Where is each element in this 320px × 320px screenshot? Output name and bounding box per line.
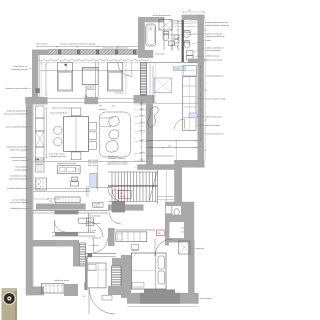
svg-text:0.90: 0.90 [99, 106, 102, 108]
central wall column lower [121, 255, 131, 298]
dark square left wall [36, 88, 40, 93]
svg-text:refuerzo dintel: refuerzo dintel [36, 42, 48, 45]
svg-text:division a sustituir por: division a sustituir por [206, 33, 223, 36]
left vertical wall desk room [85, 257, 88, 290]
svg-text:cisterna empotrada: cisterna empotrada [206, 49, 221, 52]
bed pillows [158, 256, 165, 269]
wall below kitchen gray [36, 204, 86, 210]
svg-text:placa yeso laminado hidrofugo: placa yeso laminado hidrofugo [4, 113, 27, 116]
svg-text:mueble almacenaje de obra: mueble almacenaje de obra [6, 146, 27, 149]
neighbor unit gray mass [165, 202, 194, 246]
bath2 boiler boxes [187, 51, 194, 56]
svg-text:mampara acristalada fija: mampara acristalada fija [206, 35, 225, 38]
corner washbasin corridor [87, 218, 94, 226]
svg-text:muro existente: muro existente [200, 297, 212, 300]
dimension line top facade [37, 46, 140, 48]
left wall bottom corner [26, 287, 44, 296]
svg-text:sustitucion de carpinteria ext: sustitucion de carpinteria exterior [102, 47, 129, 50]
svg-text:linea terraza nivel sup.: linea terraza nivel sup. [52, 107, 71, 110]
wardrobe column right [183, 76, 196, 130]
wall block center-top gray [134, 95, 155, 103]
stair top edge line [146, 155, 174, 157]
door arc dressing [175, 119, 185, 129]
bed [131, 253, 166, 289]
svg-text:detector incendios: detector incendios [206, 124, 220, 127]
svg-text:trasdosado laminado: trasdosado laminado [12, 68, 28, 71]
neighbor bottom white strip [169, 243, 188, 246]
svg-text:revestimiento ceramico: revestimiento ceramico [10, 175, 28, 178]
chairs right [89, 122, 97, 130]
stairs bottom wall [108, 204, 144, 210]
laundry sink unit [36, 178, 47, 190]
svg-text:mueble cocina bancada: mueble cocina bancada [57, 163, 76, 165]
shower skylight bath1 [159, 20, 172, 31]
bath1 sink [169, 41, 175, 45]
svg-text:caldera mural gas: caldera mural gas [206, 55, 220, 58]
svg-text:mesa comedor 8 pax: mesa comedor 8 pax [50, 112, 68, 115]
svg-text:distribuidor: distribuidor [92, 215, 101, 218]
dressing room counter top [183, 66, 197, 77]
vertical dimension line living left [45, 64, 47, 95]
svg-text:forrado de pilar existente con: forrado de pilar existente con [206, 21, 229, 24]
svg-text:p.06: p.06 [89, 88, 93, 90]
svg-text:instalacion fontaneria vista: instalacion fontaneria vista [7, 187, 27, 190]
stairs top wall gray [137, 164, 182, 170]
dim line corridor baths [177, 20, 179, 50]
pillar facade mid gray [84, 97, 98, 104]
red label stairs [119, 191, 131, 199]
inner face line facade [40, 62, 146, 64]
right wall outside dim ticks [205, 20, 207, 160]
corridor door arc 1 [55, 221, 67, 233]
window W2 facade right [108, 63, 123, 91]
kitchen appliance boxes [72, 177, 78, 181]
hall lines below baths [146, 62, 198, 64]
chair top [71, 108, 81, 116]
right wall band at stairs [174, 160, 182, 206]
svg-text:tabique division nueva: tabique division nueva [10, 207, 27, 210]
right dim chain [200, 66, 202, 140]
svg-text:2.10: 2.10 [168, 145, 171, 147]
bath2 toilet [184, 41, 190, 48]
svg-text:trasdosado autoportante de: trasdosado autoportante de [6, 110, 27, 113]
desk room bottom-left-2 [86, 263, 107, 288]
gray stub bottom shaft [108, 286, 121, 295]
ladder element lower [112, 266, 122, 286]
svg-text:lavabo: lavabo [206, 40, 211, 42]
neighbor closet white [169, 222, 184, 238]
svg-text:nivel 6: nivel 6 [140, 152, 145, 154]
svg-text:1.56: 1.56 [49, 201, 52, 203]
bath2 leaders [190, 33, 205, 35]
bedroom right wall [188, 240, 195, 302]
chairs left round [54, 126, 62, 134]
svg-text:registro instalaciones: registro instalaciones [206, 116, 223, 119]
svg-text:barandilla vidrio templado: barandilla vidrio templado [108, 160, 127, 163]
svg-text:mecanismos electricos: mecanismos electricos [206, 133, 224, 136]
terrace door arc facade [118, 62, 132, 76]
ladder radiator strip below bath1 [141, 63, 147, 96]
wall block left-mid gray [25, 97, 47, 105]
kitchen upper counter [57, 166, 80, 174]
wall corner top-left gray [32, 50, 49, 56]
svg-text:2.35: 2.35 [112, 106, 115, 108]
blue small box [189, 113, 197, 118]
right exterior wall upper [198, 15, 205, 168]
svg-text:nivel 5: nivel 5 [140, 140, 145, 142]
red label pb [156, 230, 164, 236]
gray block right of bench [64, 284, 78, 296]
svg-text:acabado barniz mate: acabado barniz mate [49, 155, 66, 158]
lounge rug rounded rect [99, 112, 130, 157]
svg-text:mueble: mueble [175, 69, 181, 71]
svg-text:80x210: 80x210 [120, 196, 125, 198]
washer dryer boxes [36, 158, 45, 163]
bottom-left room bench [42, 284, 65, 294]
bay square facade center [82, 67, 98, 84]
door arc kitchen pb upper [110, 213, 122, 225]
svg-text:forrado interior con: forrado interior con [13, 65, 27, 68]
door arc desk room [94, 239, 108, 253]
svg-text:bancada lavadero con: bancada lavadero con [11, 156, 28, 159]
ladder element lower-left [80, 243, 86, 266]
beam dimension line [146, 140, 198, 142]
mid wall lower [52, 231, 95, 233]
svg-text:montante instalaciones: montante instalaciones [206, 75, 224, 78]
kitchen lower counter [55, 197, 80, 203]
plant organic shape [148, 107, 159, 128]
dim line above bath2 [183, 11, 204, 13]
logo photo bottom-left [2, 288, 18, 320]
floor change line [34, 161, 147, 163]
big door arc bottom center [89, 288, 115, 314]
lounge chair blob 1 [109, 116, 119, 126]
bed pillow small room [88, 265, 96, 271]
neighbor sink white [166, 206, 172, 213]
facade mullion lines [95, 62, 97, 97]
cabinet bedroom right [179, 241, 191, 254]
svg-text:12.40 m2: 12.40 m2 [94, 206, 100, 208]
existing wall hatched top [48, 50, 140, 55]
svg-text:encimera compacta: encimera compacta [13, 159, 28, 162]
blue cabinet box hall [173, 67, 185, 71]
vertical wall stub lower-left [73, 240, 79, 267]
svg-text:toma lavadora y: toma lavadora y [15, 166, 27, 169]
nightstand [132, 245, 139, 251]
svg-text:nivel 7: nivel 7 [140, 160, 145, 162]
svg-text:aislamiento termico insuflado: aislamiento termico insuflado [5, 87, 27, 90]
svg-text:0.60 1.20 0.60: 0.60 1.20 0.60 [88, 160, 98, 162]
svg-text:zona estar lectura: zona estar lectura [100, 116, 113, 119]
door leaf box bottom [102, 296, 112, 301]
skylight blue square [154, 78, 171, 93]
kitchen dim line left [34, 198, 61, 200]
svg-text:3.25: 3.25 [188, 10, 191, 12]
svg-text:armario pb: armario pb [196, 247, 204, 250]
svg-text:nivel 2: nivel 2 [140, 115, 145, 117]
wall above desk room [85, 252, 116, 254]
svg-text:inodoro suspendido con: inodoro suspendido con [206, 47, 225, 50]
svg-text:tarima roble natural: tarima roble natural [49, 153, 65, 156]
door arc kitchen-stairs [112, 190, 125, 203]
bath doors arcs [172, 44, 179, 51]
svg-text:banos planta primera: banos planta primera [153, 14, 172, 17]
stair handrail [108, 185, 157, 187]
kitchen room label box [93, 202, 103, 207]
svg-text:nivel 0: nivel 0 [140, 104, 145, 106]
svg-text:16 peldanos 18x28 cm: 16 peldanos 18x28 cm [108, 158, 126, 160]
svg-text:nivel 3: nivel 3 [140, 122, 145, 124]
stair landing [156, 170, 158, 204]
left exterior wall [26, 104, 33, 295]
svg-text:encuentro carpinteria exterior: encuentro carpinteria exterior con facha… [60, 42, 96, 45]
divider walls bathrooms [163, 17, 165, 50]
stair treads [108, 171, 157, 173]
svg-text:tabica armario cocina: tabica armario cocina [206, 59, 223, 62]
neighbor toilet white [172, 206, 181, 215]
kitchen pb counter [116, 232, 147, 242]
corridor top wall lines [33, 210, 108, 212]
bottom wall gray [127, 293, 199, 304]
counter lines mid [34, 188, 91, 190]
vertical dim line left inside [46, 108, 48, 158]
bath1 left wall [138, 17, 145, 51]
stair door arc [108, 187, 122, 201]
vertical wall kitchen pb [108, 228, 115, 246]
svg-text:secadora apilada: secadora apilada [14, 169, 27, 172]
upper wall kitchen pb lines [108, 229, 155, 231]
svg-text:bano pb: bano pb [92, 245, 98, 247]
bath bottom wall band [188, 59, 205, 63]
window door W1 upper-left [57, 63, 72, 91]
fridge blue [90, 173, 97, 187]
left wall inner face lines [39, 55, 41, 97]
door arc kitchen pb [155, 239, 172, 256]
storage cabinets left wall [36, 106, 45, 118]
lounge chair blob 3 [106, 141, 118, 153]
leader lines bath to labels [172, 23, 204, 25]
svg-text:nivel 4: nivel 4 [140, 130, 145, 132]
bath2 top wall [182, 15, 205, 20]
corridor bath fixtures [174, 35, 179, 39]
door arc dormitorio2 [87, 222, 103, 238]
line below center block [154, 102, 197, 104]
svg-text:04: 04 [83, 296, 85, 298]
svg-text:balda interior regulable: balda interior regulable [10, 149, 28, 152]
sill lines south of facade strip [48, 98, 85, 100]
chair bottom [71, 152, 81, 160]
center wall gray [146, 103, 153, 170]
dining table [64, 117, 89, 152]
bed foot lines [132, 283, 144, 288]
wall band bottom-left room top [26, 240, 73, 247]
svg-text:paso oculta en tabique: paso oculta en tabique [10, 201, 27, 204]
svg-text:0.60 1.20 0.60: 0.60 1.20 0.60 [88, 165, 98, 167]
small fixture box corridor [79, 218, 89, 223]
bath1 bottom block [138, 50, 153, 58]
svg-text:armario vestidor a medida: armario vestidor a medida [206, 98, 226, 101]
svg-text:paso: paso [92, 230, 96, 232]
bath2 fixtures sink [183, 31, 190, 38]
svg-text:tablero hidrofugo acabado tipo: tablero hidrofugo acabado tipo [206, 24, 230, 27]
svg-text:gran formato rectificado: gran formato rectificado [9, 178, 27, 181]
lounge chair blob 2 [109, 130, 119, 139]
svg-text:V02: V02 [157, 233, 160, 235]
insulation wavy line facade [37, 59, 149, 61]
level arrow facade [85, 85, 87, 97]
bath1 toilet [163, 33, 169, 41]
svg-text:frente armariada paso: frente armariada paso [96, 186, 113, 189]
corridor vertical wall lines [88, 213, 90, 232]
kitchen right boundary line [97, 166, 99, 191]
bathtub [146, 24, 156, 46]
bath1 top wall [138, 17, 164, 22]
svg-text:armario empotrado existente: armario empotrado existente [6, 126, 28, 129]
svg-text:0.60 1.20 0.60: 0.60 1.20 0.60 [88, 162, 98, 164]
